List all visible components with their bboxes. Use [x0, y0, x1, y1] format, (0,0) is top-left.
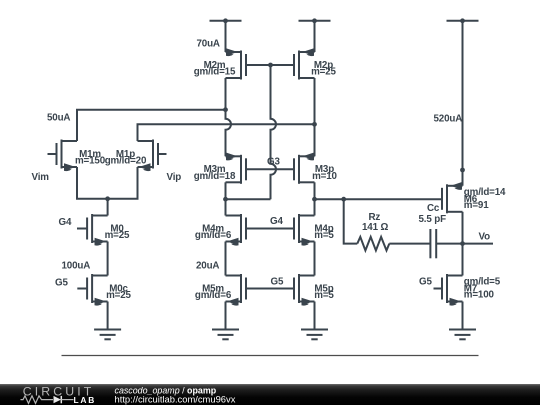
power rail tap (VDD) over M6 [447, 18, 479, 23]
svg-text:Vo: Vo [479, 231, 491, 242]
transistor M1p [105, 140, 167, 172]
transistor M3m [194, 153, 246, 184]
svg-text:Vip: Vip [167, 172, 182, 183]
svg-text:LAB: LAB [74, 395, 97, 405]
separator line [62, 355, 479, 357]
svg-text:m=25: m=25 [106, 290, 131, 301]
svg-text:gm/ld=18: gm/ld=18 [194, 171, 236, 182]
ground under M7 [449, 330, 476, 340]
node on M6 source wire [460, 168, 465, 173]
transistor M0 [77, 214, 130, 246]
wire node to Rz [344, 199, 358, 243]
net G3 gate line [246, 168, 294, 170]
wire M7 source to ground [462, 302, 464, 330]
wire Rz to Cc [389, 243, 430, 245]
wire first stage output to M6 gate [315, 198, 443, 200]
transistor M3p [294, 153, 338, 184]
wire Cc to output node [436, 243, 462, 245]
wire M3p drain to M4p drain [314, 182, 316, 215]
wire tail to M0 drain [107, 199, 109, 216]
svg-text:m=91: m=91 [464, 200, 489, 211]
wire M0 source to M0c drain [107, 242, 109, 276]
svg-text:G5: G5 [55, 277, 68, 288]
svg-text:G5: G5 [271, 277, 284, 288]
svg-text:m=5: m=5 [314, 290, 334, 301]
transistor M6 [442, 182, 506, 213]
node Rz branch [341, 197, 346, 202]
svg-text:141 Ω: 141 Ω [362, 222, 388, 233]
svg-text:gm/ld=15: gm/ld=15 [194, 67, 236, 78]
svg-text:m=150: m=150 [75, 156, 106, 167]
wire M3m drain to M2 gate vertical [226, 198, 271, 200]
node output Vo [460, 241, 465, 246]
node M3p drain [312, 197, 317, 202]
svg-text:gm/ld=20: gm/ld=20 [105, 156, 147, 167]
svg-text:G4: G4 [270, 216, 283, 227]
wire VDD to M2m source [225, 21, 227, 52]
wire M2 gates to M3m drain (with crossover hops) [271, 65, 277, 199]
capacitor Cc [430, 229, 436, 258]
wire output to Vo port [463, 243, 494, 245]
svg-text:20uA: 20uA [196, 261, 219, 272]
svg-text:gm/ld=6: gm/ld=6 [195, 230, 232, 241]
node fold A on M2m drain [223, 107, 228, 112]
node M2 gates [268, 63, 273, 68]
svg-text:gm/ld=6: gm/ld=6 [195, 290, 232, 301]
net G4 gate line [246, 228, 294, 230]
node fold B on M2p drain [312, 122, 317, 127]
transistor M2p [294, 48, 337, 79]
svg-text:520uA: 520uA [434, 114, 463, 125]
logo glyph: resistor zigzag, diode, wire [21, 396, 54, 404]
wire M1p drain to fold node B [138, 124, 315, 141]
svg-text:70uA: 70uA [197, 39, 220, 50]
ground under M5m [212, 330, 239, 340]
transistor M4m [195, 214, 246, 246]
transistor M7 [434, 274, 501, 306]
power rail tap (VDD) over M2m [210, 18, 242, 23]
svg-text:100uA: 100uA [62, 261, 91, 272]
svg-text:G4: G4 [59, 217, 72, 228]
transistor M0c [77, 274, 131, 306]
wire M2 gates link [246, 64, 294, 66]
svg-text:G5: G5 [419, 277, 432, 288]
transistor M5m [195, 274, 246, 306]
svg-text:http://circuitlab.com/cmu96vx: http://circuitlab.com/cmu96vx [115, 393, 236, 404]
wire M4p source to M5p drain [314, 242, 316, 276]
svg-text:m=25: m=25 [105, 230, 130, 241]
wire M6 drain to output node [462, 212, 464, 244]
wire M2m drain to M3m source (with crossover hop) [226, 78, 232, 156]
ground under M0c [94, 330, 121, 340]
svg-text:5.5 pF: 5.5 pF [419, 214, 447, 225]
resistor Rz [357, 237, 389, 251]
wire M0c source to ground [107, 302, 109, 330]
wire M5p source to ground [314, 302, 316, 330]
power rail tap (VDD) over M2p [299, 18, 331, 23]
transistor M4p [294, 214, 334, 246]
svg-text:m=25: m=25 [311, 67, 336, 78]
wire diff pair sources to tail [77, 167, 138, 199]
transistor M2m [194, 48, 246, 79]
svg-text:m=10: m=10 [312, 171, 337, 182]
svg-text:G3: G3 [267, 157, 280, 168]
svg-text:Vim: Vim [32, 172, 50, 183]
svg-text:50uA: 50uA [47, 113, 70, 124]
svg-text:m=100: m=100 [464, 290, 495, 301]
node tail [105, 196, 110, 201]
transistor M5p [294, 274, 334, 306]
wire M2p drain to M3p source [314, 78, 316, 156]
wire VDD to M6 source [462, 21, 464, 186]
transistor M1m [48, 140, 106, 172]
wire M5m source to ground [225, 302, 227, 330]
wire M4m source to M5m drain [225, 242, 227, 276]
wire VDD to M2p source [314, 21, 316, 52]
wire M1m drain to fold node A [77, 110, 226, 141]
wire output node to M7 drain [462, 244, 464, 276]
svg-text:Cc: Cc [427, 203, 440, 214]
net G5 gate line [246, 288, 294, 290]
svg-text:m=5: m=5 [314, 230, 334, 241]
node M3m drain [223, 197, 228, 202]
ground under M5p [301, 330, 328, 340]
wire M3m drain to M4m drain [225, 182, 227, 215]
